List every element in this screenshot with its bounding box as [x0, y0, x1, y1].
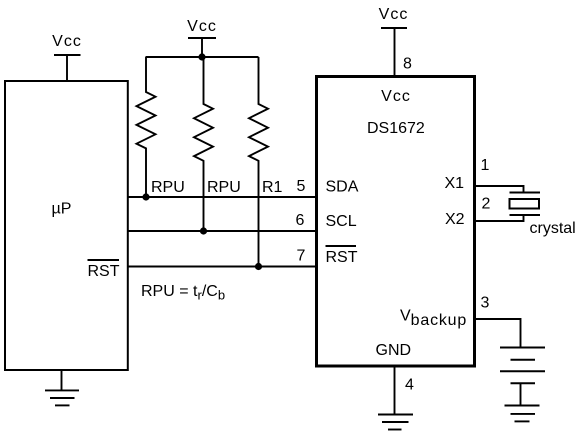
svg-text:X1: X1: [445, 175, 465, 192]
svg-text:6: 6: [296, 212, 305, 229]
svg-text:2: 2: [482, 196, 491, 213]
wire SDA (line 1, µP to pin 5): [128, 196, 315, 198]
svg-text:Vcc: Vcc: [187, 18, 217, 35]
RST label (µP side, active low): [88, 260, 120, 280]
wire Vbackup (pin 3): [476, 319, 521, 348]
svg-text:X2: X2: [445, 211, 465, 228]
wire RST (line 3, µP to pin 7): [128, 266, 315, 268]
svg-text:4: 4: [405, 377, 414, 394]
RST pin name (active low): [326, 246, 358, 266]
wire X2 (pin 2): [476, 215, 524, 221]
svg-text:Vcc: Vcc: [381, 88, 411, 105]
wire X1 (pin 1): [476, 186, 524, 193]
svg-text:RPU = tr/Cb: RPU = tr/Cb: [141, 283, 225, 303]
svg-text:RPU: RPU: [207, 179, 241, 196]
wire SCL (line 2, µP to pin 6): [128, 230, 315, 232]
power Vcc (DS1672 supply): [379, 6, 409, 75]
svg-text:Vcc: Vcc: [379, 6, 409, 23]
junction rail / middle resistor: [198, 53, 205, 60]
crystal Y1: [510, 193, 541, 216]
wire pull-up rail: [146, 56, 259, 58]
ground (DS1672 GND): [378, 415, 413, 430]
svg-text:RST: RST: [326, 249, 358, 266]
ground (µP): [45, 370, 79, 405]
resistor R1 (right): [249, 57, 268, 267]
wire battery to ground: [520, 383, 522, 405]
junction SDA / left RPU: [142, 193, 149, 200]
svg-text:RPU: RPU: [151, 179, 185, 196]
svg-text:5: 5: [297, 178, 306, 195]
svg-text:GND: GND: [376, 342, 412, 359]
battery (backup cell): [500, 348, 545, 384]
svg-text:crystal: crystal: [530, 220, 576, 237]
svg-text:SDA: SDA: [326, 179, 359, 196]
IC U1 DS1672: [317, 77, 475, 367]
microprocessor µP: [5, 81, 128, 370]
svg-text:Vbackup: Vbackup: [400, 308, 467, 330]
junction RST / R1: [255, 263, 262, 270]
power Vcc (pull-up rail): [187, 18, 217, 57]
svg-text:R1: R1: [262, 179, 283, 196]
svg-text:1: 1: [481, 157, 490, 174]
svg-text:RST: RST: [88, 263, 120, 280]
ground (battery): [505, 406, 540, 422]
junction SCL / middle RPU: [200, 227, 207, 234]
power Vcc (µP supply): [52, 33, 82, 81]
svg-text:Vcc: Vcc: [52, 33, 82, 50]
svg-text:8: 8: [403, 56, 412, 73]
svg-text:7: 7: [297, 248, 306, 265]
resistor RPU (middle): [194, 57, 213, 231]
wire GND (pin 4): [394, 365, 396, 415]
svg-text:DS1672: DS1672: [367, 120, 425, 137]
svg-text:SCL: SCL: [326, 213, 357, 230]
svg-text:3: 3: [481, 295, 490, 312]
svg-text:µP: µP: [52, 201, 72, 218]
resistor RPU (left): [137, 57, 156, 197]
